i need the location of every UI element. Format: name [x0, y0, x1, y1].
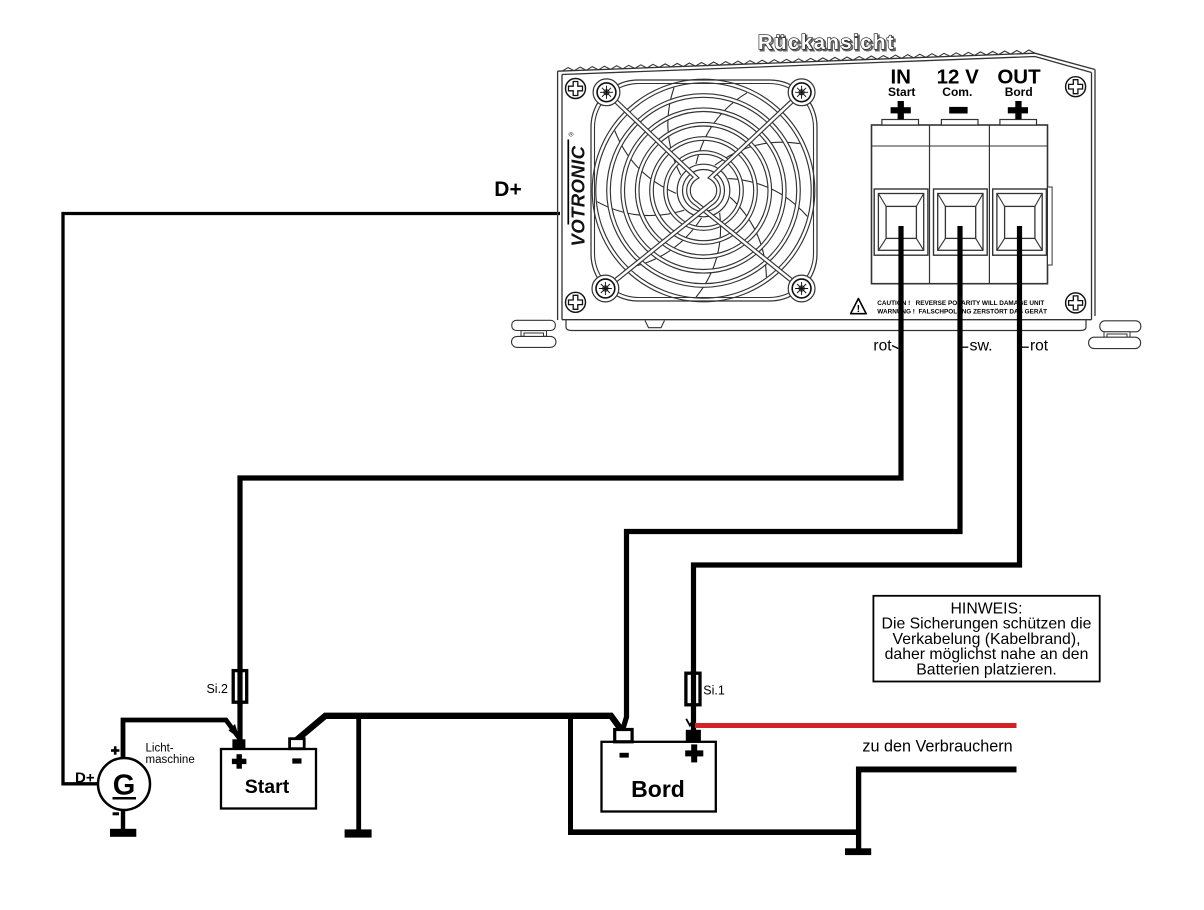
left mounting foot [512, 320, 556, 330]
svg-text:Si.2: Si.2 [206, 682, 228, 696]
svg-text:zu den Verbrauchern: zu den Verbrauchern [862, 738, 1012, 756]
red wire zu den Verbrauchern [695, 723, 1017, 728]
charger case outline [558, 53, 1095, 320]
charger device (Rueckansicht) [512, 31, 1141, 349]
guard X wire 1 (TL-BR) [607, 92, 802, 288]
Bord + label [685, 744, 703, 762]
heatsink zigzag top band [562, 50, 1035, 71]
svg-text:Start: Start [245, 776, 290, 798]
HINWEIS note box [873, 596, 1099, 682]
svg-text:rot: rot [873, 338, 892, 355]
generator (Lichtmaschine) [75, 742, 195, 837]
plus symbol OUT [1008, 101, 1028, 119]
arrowhead at Bord + [686, 719, 693, 726]
svg-text:G: G [113, 770, 136, 802]
svg-text:sw.: sw. [970, 338, 993, 355]
svg-text:!: ! [857, 303, 861, 315]
Bord + terminal [686, 730, 701, 742]
Start - terminal [290, 739, 305, 749]
consumer return horizontal [856, 766, 1017, 772]
Start + label [232, 754, 247, 769]
svg-text:Batterien platzieren.: Batterien platzieren. [916, 662, 1057, 679]
svg-text:®: ® [569, 132, 576, 137]
wire 12V Com (sw.) from COM terminal to Bord minus [622, 226, 960, 732]
bottom wire run to consumers ground [568, 829, 859, 835]
wire D+ from generator to charger [63, 214, 560, 784]
ground symbol (Start area) [345, 829, 372, 837]
svg-text:maschine: maschine [146, 754, 195, 766]
svg-text:D+: D+ [75, 769, 95, 786]
middle foot [645, 321, 665, 328]
svg-text:Start: Start [888, 85, 915, 99]
minus symbol 12V [949, 107, 967, 114]
fan grille [591, 79, 817, 302]
ground stub near Start [356, 716, 361, 831]
VOTRONIC logo [568, 132, 589, 247]
svg-text:Bord: Bord [1005, 85, 1033, 99]
bottom lip [566, 320, 1086, 331]
fan hub [676, 163, 731, 218]
svg-text:rot: rot [1030, 338, 1049, 355]
wire junction down-left of Bord [568, 716, 573, 832]
terminal block [872, 120, 1053, 284]
battery Bord [602, 730, 716, 812]
svg-text:Licht-: Licht- [146, 742, 174, 754]
Bord - terminal [615, 730, 632, 742]
generator - mark [113, 812, 119, 815]
wire IN (rot) from IN terminal to fuse Si.2 [240, 226, 901, 740]
fuse Si.1 [686, 673, 700, 705]
fan guard rings [666, 153, 742, 229]
caution warning triangle [851, 299, 867, 316]
ground symbol (generator) [110, 829, 136, 837]
svg-text:Rückansicht: Rückansicht [758, 31, 895, 54]
svg-text:VOTRONIC: VOTRONIC [568, 145, 589, 246]
generator + mark [111, 746, 119, 754]
grille outer boundary [591, 80, 817, 301]
svg-text:D+: D+ [494, 178, 521, 201]
arrowhead at Start + [229, 724, 240, 739]
svg-text:Si.1: Si.1 [703, 684, 725, 698]
wire OUT (rot) from OUT terminal to fuse Si.1 [694, 226, 1020, 734]
plus symbol IN [891, 101, 911, 119]
consumer return vertical [856, 767, 861, 849]
Start + terminal [232, 739, 245, 749]
Start - label [292, 758, 301, 763]
fuse Si.2 [233, 671, 247, 703]
generator bottom wire [121, 809, 125, 830]
battery Start [221, 739, 316, 809]
fan corner screws (star) [593, 79, 620, 106]
ground symbol (consumers) [845, 848, 871, 855]
wire from Start - to Bord - (long run) [297, 716, 622, 740]
fan blades [726, 194, 766, 277]
terminal clamp 1 (IN) [874, 189, 928, 255]
right mounting foot [1100, 321, 1141, 332]
svg-text:Bord: Bord [631, 776, 685, 802]
wire from generator + to Start battery + [123, 720, 240, 757]
guard X wire 2 (TR-BL) [605, 92, 801, 288]
case corner screws (plus) [566, 79, 586, 99]
svg-text:Com.: Com. [942, 85, 972, 99]
Bord - label [620, 753, 629, 758]
